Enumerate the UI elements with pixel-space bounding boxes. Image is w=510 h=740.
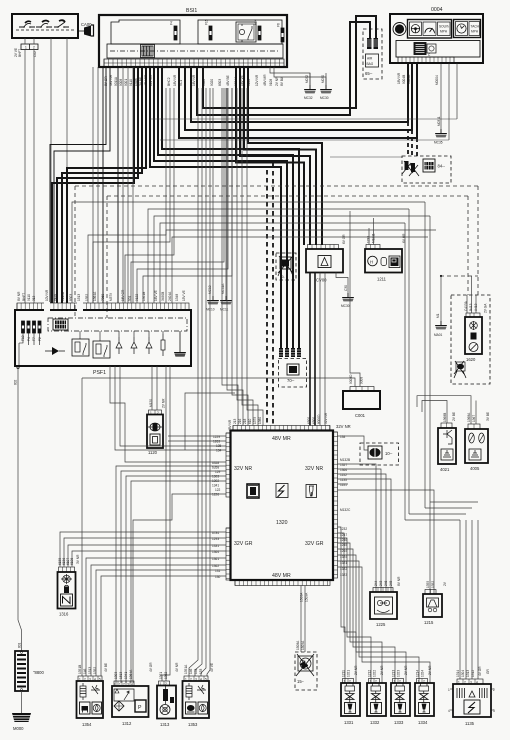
switch S3 bbox=[54, 20, 69, 28]
wire bbox=[72, 551, 226, 567]
svg-text:1368A: 1368A bbox=[467, 412, 471, 422]
wire bbox=[86, 558, 226, 676]
svg-text:M0004: M0004 bbox=[435, 75, 439, 85]
svg-text:1: 1 bbox=[160, 682, 162, 686]
svg-text:4V GR: 4V GR bbox=[149, 662, 153, 672]
svg-text:1351B: 1351B bbox=[78, 665, 82, 674]
svg-text:GR: GR bbox=[486, 669, 490, 674]
svg-text:216: 216 bbox=[238, 418, 242, 424]
wires to 1225 1215 bbox=[338, 464, 435, 594]
svg-text:2V NR: 2V NR bbox=[275, 76, 279, 86]
svg-text:1: 1 bbox=[344, 680, 346, 684]
connector box 84 dashed bbox=[402, 156, 451, 183]
svg-text:2: 2 bbox=[464, 681, 466, 685]
thick harness C3 bbox=[240, 67, 310, 245]
svg-text:1508A: 1508A bbox=[300, 592, 304, 602]
wires 1620 up bbox=[467, 276, 476, 313]
svg-text:16V VE: 16V VE bbox=[154, 290, 158, 301]
svg-text:18V NR: 18V NR bbox=[397, 72, 401, 84]
wire CA00 pins down bbox=[25, 38, 67, 303]
switch S1 bbox=[19, 21, 35, 28]
CV00 outputs down to ECU bbox=[310, 273, 315, 426]
thick harness D3 bbox=[158, 67, 293, 348]
svg-text:1353: 1353 bbox=[188, 722, 198, 727]
inner dashed region bbox=[107, 196, 468, 318]
wire bbox=[120, 366, 226, 446]
PSF1 top pin row bbox=[17, 303, 189, 310]
verticals BSI down to 1320 top bbox=[222, 88, 238, 426]
wire bbox=[64, 538, 226, 567]
svg-text:1215: 1215 bbox=[424, 620, 434, 625]
svg-text:2: 2 bbox=[165, 682, 167, 686]
diode D3 bbox=[146, 337, 152, 354]
fuse F14 bbox=[258, 26, 261, 40]
wires 4005 up bbox=[417, 396, 476, 424]
svg-text:1367: 1367 bbox=[472, 415, 476, 422]
injector 1334 bbox=[415, 679, 434, 717]
left mesh horizontals group1 to 1320 bbox=[168, 435, 226, 437]
svg-text:32V NR: 32V NR bbox=[336, 424, 351, 429]
svg-text:8V BA: 8V BA bbox=[280, 76, 284, 86]
dashed option link bbox=[440, 275, 478, 277]
svg-text:1368B: 1368B bbox=[443, 413, 447, 422]
svg-text:8V NR: 8V NR bbox=[397, 576, 401, 586]
svg-text:1513: 1513 bbox=[77, 294, 81, 301]
svg-text:MA01: MA01 bbox=[434, 333, 443, 337]
svg-text:6358: 6358 bbox=[212, 461, 219, 465]
svg-text:1: 1 bbox=[458, 681, 460, 685]
wire bbox=[338, 538, 372, 683]
PSF1 inner wires bbox=[19, 331, 163, 366]
injector 1333 bbox=[391, 679, 410, 717]
fuse F15 bbox=[209, 26, 212, 40]
svg-text:146: 146 bbox=[189, 668, 193, 674]
svg-text:1229: 1229 bbox=[213, 435, 220, 439]
svg-text:BSI1: BSI1 bbox=[186, 8, 197, 14]
svg-text:2V NR: 2V NR bbox=[428, 665, 432, 675]
svg-text:1362: 1362 bbox=[164, 672, 168, 679]
svg-text:M132B: M132B bbox=[340, 458, 350, 462]
svg-text:2V NR: 2V NR bbox=[380, 665, 384, 675]
svg-text:218: 218 bbox=[243, 418, 247, 424]
svg-text:122: 122 bbox=[215, 488, 221, 492]
svg-text:4V BE: 4V BE bbox=[104, 663, 108, 672]
extra thin wires BSI to PSF1 bbox=[93, 67, 133, 303]
svg-text:3490B: 3490B bbox=[161, 292, 165, 301]
svg-text:6V HR: 6V HR bbox=[402, 233, 406, 243]
svg-text:1152: 1152 bbox=[340, 473, 347, 477]
svg-text:32V NR: 32V NR bbox=[234, 466, 252, 472]
PSF1 chip connector bbox=[53, 319, 68, 330]
svg-text:146: 146 bbox=[83, 668, 87, 674]
wire bbox=[68, 545, 226, 567]
svg-text:4: 4 bbox=[131, 683, 133, 687]
svg-text:2V GA: 2V GA bbox=[484, 303, 488, 313]
svg-text:152: 152 bbox=[194, 668, 198, 674]
sensor 1215 bbox=[423, 590, 442, 618]
fuse PF4 bbox=[38, 321, 41, 333]
svg-text:48V NR: 48V NR bbox=[228, 419, 232, 431]
svg-text:65--: 65-- bbox=[365, 71, 373, 76]
svg-text:B413: B413 bbox=[469, 303, 473, 311]
thick harness E2 bbox=[197, 22, 370, 115]
svg-text:MC30: MC30 bbox=[320, 96, 329, 100]
thick harness D1 BSI to connector 70 bbox=[150, 67, 281, 348]
svg-text:1303: 1303 bbox=[212, 475, 219, 479]
svg-text:2: 2 bbox=[190, 678, 192, 682]
gauge group A box bbox=[408, 20, 452, 39]
svg-text:3: 3 bbox=[195, 678, 197, 682]
wire to MC11 bbox=[225, 88, 227, 296]
blower unit 1354 bbox=[77, 676, 104, 718]
wire bbox=[131, 88, 224, 303]
wire 8022b and 1353 feeds from PSF1 bbox=[81, 378, 83, 676]
svg-text:MC35: MC35 bbox=[434, 141, 443, 145]
svg-text:2: 2 bbox=[375, 680, 377, 684]
fuse PF3 bbox=[33, 321, 36, 333]
fuse box PSF1 bbox=[15, 310, 191, 366]
ground M000 bbox=[12, 713, 32, 722]
svg-text:4005: 4005 bbox=[470, 466, 480, 471]
svg-text:9110: 9110 bbox=[129, 79, 133, 86]
svg-text:1362: 1362 bbox=[212, 564, 219, 568]
BSI1 sub-box right bbox=[198, 20, 282, 44]
chip module bbox=[414, 43, 436, 58]
fuse PF1 bbox=[22, 321, 25, 333]
svg-text:M120: M120 bbox=[149, 399, 153, 407]
1320 icon injector bbox=[306, 485, 317, 498]
wire bbox=[338, 549, 396, 683]
cluster pin row bbox=[398, 57, 454, 64]
svg-text:BHC2: BHC2 bbox=[167, 77, 171, 86]
wire to MC10 bbox=[212, 88, 214, 296]
svg-text:2: 2 bbox=[349, 680, 351, 684]
svg-text:1364A: 1364A bbox=[93, 291, 97, 301]
svg-text:1513: 1513 bbox=[88, 667, 92, 674]
wires 1320 to dashed fan bbox=[301, 586, 305, 653]
svg-text:15V VE: 15V VE bbox=[182, 290, 186, 301]
svg-text:BAG: BAG bbox=[367, 62, 374, 66]
svg-text:1352: 1352 bbox=[85, 294, 89, 301]
svg-text:1212: 1212 bbox=[368, 670, 372, 677]
svg-text:8V NR: 8V NR bbox=[17, 291, 21, 301]
wire bbox=[189, 88, 210, 676]
ground MC32 bbox=[304, 85, 317, 94]
BSI1 lower box bbox=[107, 44, 283, 58]
svg-text:3: 3 bbox=[493, 709, 495, 713]
svg-text:MC11A: MC11A bbox=[221, 283, 225, 294]
svg-text:2: 2 bbox=[33, 46, 35, 50]
icon SOU/h box bbox=[438, 22, 451, 36]
svg-text:4: 4 bbox=[448, 709, 450, 713]
svg-text:1: 1 bbox=[25, 46, 27, 50]
svg-text:MC30: MC30 bbox=[341, 304, 350, 308]
wire 134 to connector 10 bbox=[338, 436, 369, 450]
svg-text:1379: 1379 bbox=[253, 417, 257, 424]
svg-text:1312: 1312 bbox=[122, 721, 132, 726]
svg-text:"8800: "8800 bbox=[33, 670, 44, 675]
svg-text:84--: 84-- bbox=[438, 164, 446, 169]
thick harness D4 bbox=[162, 67, 299, 348]
gauge group B box bbox=[454, 20, 481, 38]
svg-text:1225: 1225 bbox=[376, 622, 386, 627]
svg-text:134: 134 bbox=[216, 449, 222, 453]
svg-text:1303: 1303 bbox=[114, 672, 118, 679]
resistor D4 bbox=[161, 334, 165, 356]
harness B2 bbox=[50, 67, 106, 303]
svg-text:1320: 1320 bbox=[276, 520, 288, 526]
wire bbox=[131, 481, 226, 683]
ignition coil 1135 bbox=[448, 679, 495, 717]
connector C02 2-pin bbox=[21, 44, 38, 50]
svg-text:MC32: MC32 bbox=[304, 96, 313, 100]
fuse F6 bbox=[281, 28, 284, 42]
crossed stubs in 84 box bbox=[402, 161, 419, 176]
svg-text:2V NR: 2V NR bbox=[404, 665, 408, 675]
svg-text:M0311: M0311 bbox=[437, 116, 441, 126]
svg-text:4V GR: 4V GR bbox=[478, 666, 482, 676]
svg-text:3: 3 bbox=[89, 678, 91, 682]
svg-text:1322: 1322 bbox=[373, 670, 377, 677]
dashed option wires to ECU bbox=[266, 170, 268, 426]
wire bbox=[232, 88, 248, 426]
crossed connector 70 option bbox=[276, 253, 296, 280]
svg-text:PSF1: PSF1 bbox=[93, 370, 106, 376]
diode arrow symbol bbox=[52, 347, 59, 355]
wire bbox=[162, 366, 170, 681]
svg-text:9008D: 9008D bbox=[349, 374, 353, 384]
chip connector 84 bbox=[423, 159, 435, 172]
svg-text:1: 1 bbox=[119, 683, 121, 687]
switch S2 bbox=[36, 21, 52, 28]
svg-text:2V NR: 2V NR bbox=[354, 665, 358, 675]
wire bbox=[148, 209, 409, 303]
svg-text:1226: 1226 bbox=[212, 493, 219, 497]
svg-text:C001: C001 bbox=[355, 413, 366, 418]
svg-text:9110: 9110 bbox=[27, 294, 31, 301]
thick harness C1 BSI to CV00 bbox=[248, 67, 322, 245]
ground MC11 bbox=[220, 296, 233, 305]
right verticals to coil bbox=[460, 520, 478, 679]
svg-text:1364A: 1364A bbox=[129, 669, 133, 679]
svg-text:3: 3 bbox=[127, 683, 129, 687]
wire bbox=[242, 88, 258, 426]
svg-text:1324: 1324 bbox=[421, 670, 425, 677]
wire MC32 horiz from BSI bbox=[270, 67, 326, 85]
svg-text:7360: 7360 bbox=[101, 294, 105, 301]
svg-text:B: B bbox=[115, 683, 117, 687]
svg-text:48V MR: 48V MR bbox=[272, 436, 291, 442]
wires 1120 up to PSF1 bbox=[152, 366, 157, 410]
svg-text:8000D: 8000D bbox=[317, 414, 321, 424]
thick harness F3 bbox=[179, 64, 417, 139]
right long verticals bbox=[405, 202, 430, 594]
fuel gauge unit 1211 bbox=[365, 245, 402, 273]
relay R2 bbox=[93, 341, 110, 358]
svg-text:1352: 1352 bbox=[431, 581, 435, 588]
svg-text:1323: 1323 bbox=[397, 670, 401, 677]
svg-text:C02: C02 bbox=[33, 51, 37, 57]
1320 icon connector bbox=[247, 484, 259, 498]
svg-text:1361: 1361 bbox=[212, 557, 219, 561]
group3 wires to 1316 and 1354 bbox=[60, 532, 226, 567]
svg-text:5: 5 bbox=[205, 678, 207, 682]
pin row gaps bbox=[44, 302, 50, 311]
svg-text:32V GR: 32V GR bbox=[305, 541, 324, 547]
svg-text:MC10: MC10 bbox=[206, 308, 215, 312]
svg-text:H: H bbox=[370, 260, 373, 265]
relay K1 bbox=[236, 22, 256, 42]
AIR BAG text box bbox=[366, 54, 379, 67]
airbag dashed box 65 bbox=[363, 29, 382, 79]
thick harness A3 bbox=[62, 67, 142, 303]
svg-text:9020: 9020 bbox=[210, 79, 214, 86]
svg-text:1354: 1354 bbox=[82, 722, 92, 727]
svg-text:M379: M379 bbox=[109, 293, 113, 301]
wire bbox=[320, 273, 325, 426]
connector plug CA00 bbox=[78, 25, 94, 37]
svg-text:6108: 6108 bbox=[70, 558, 74, 565]
ground MC30b bbox=[342, 293, 355, 302]
wire bbox=[154, 216, 430, 303]
svg-text:2V BE: 2V BE bbox=[452, 412, 456, 421]
svg-text:9004B: 9004B bbox=[402, 75, 406, 84]
svg-text:1357: 1357 bbox=[340, 463, 347, 467]
svg-text:1211: 1211 bbox=[342, 670, 346, 677]
fuse F4 bbox=[174, 26, 177, 40]
svg-text:1293: 1293 bbox=[212, 537, 219, 541]
svg-text:1380: 1380 bbox=[258, 417, 262, 424]
svg-text:9115A: 9115A bbox=[61, 291, 65, 301]
wire 4021 up bbox=[422, 401, 447, 424]
wire PSF1 8022 down bbox=[18, 366, 22, 651]
connector C001 bbox=[343, 387, 380, 410]
wire bbox=[116, 466, 226, 683]
wire bbox=[338, 543, 383, 683]
relay unit 1120 bbox=[147, 410, 163, 448]
svg-text:1211: 1211 bbox=[377, 277, 387, 282]
icon clock bbox=[456, 22, 468, 36]
svg-text:1314: 1314 bbox=[456, 670, 460, 677]
svg-text:1348: 1348 bbox=[175, 294, 179, 301]
svg-text:9008: 9008 bbox=[119, 79, 123, 86]
svg-text:1364: 1364 bbox=[212, 550, 219, 554]
svg-text:9011A: 9011A bbox=[114, 76, 118, 86]
svg-text:48V MR: 48V MR bbox=[272, 573, 291, 579]
injector 1332 bbox=[367, 679, 386, 717]
svg-text:3V BE: 3V BE bbox=[486, 412, 490, 421]
BSI1 internal connector bbox=[141, 45, 155, 58]
svg-text:1135: 1135 bbox=[340, 478, 347, 482]
svg-text:1304: 1304 bbox=[461, 670, 465, 677]
siren CV00 bbox=[306, 245, 343, 273]
BSI1 unit box bbox=[99, 15, 287, 67]
svg-text:1: 1 bbox=[150, 411, 152, 415]
svg-text:1213: 1213 bbox=[392, 670, 396, 677]
svg-text:1313: 1313 bbox=[160, 722, 170, 727]
ground MC35 bbox=[435, 129, 448, 138]
svg-text:F2: F2 bbox=[38, 337, 42, 341]
thick harness F2 bbox=[185, 64, 412, 131]
switch unit CA00 box bbox=[12, 14, 78, 38]
thick harness C4 bbox=[236, 67, 304, 245]
1320 icon lightning bbox=[276, 484, 288, 498]
wire bbox=[165, 366, 167, 681]
cluster lower box bbox=[396, 41, 480, 58]
wires 1211 up bbox=[369, 218, 374, 245]
1320 top pin row bbox=[233, 426, 330, 431]
svg-text:4: 4 bbox=[94, 678, 96, 682]
svg-text:1316: 1316 bbox=[59, 612, 69, 617]
BSI1 bottom pin row bbox=[104, 59, 284, 67]
icon wheel bbox=[410, 22, 422, 36]
svg-text:1: 1 bbox=[370, 680, 372, 684]
svg-text:153: 153 bbox=[199, 668, 203, 674]
svg-text:2404A: 2404A bbox=[168, 291, 172, 301]
svg-text:2: 2 bbox=[84, 678, 86, 682]
svg-text:32V NR: 32V NR bbox=[305, 466, 323, 472]
svg-text:4021: 4021 bbox=[440, 467, 450, 472]
svg-text:M032: M032 bbox=[305, 75, 309, 83]
svg-text:610: 610 bbox=[248, 418, 252, 424]
svg-text:70-: 70- bbox=[280, 275, 285, 279]
svg-text:1508A: 1508A bbox=[296, 640, 300, 650]
battery strip 8800 bbox=[15, 651, 28, 691]
BSI1 sub-box left bbox=[111, 20, 180, 44]
svg-text:M132C: M132C bbox=[340, 508, 351, 512]
1320 bottom pin row bbox=[235, 580, 330, 586]
svg-text:1: 1 bbox=[418, 680, 420, 684]
svg-text:1120: 1120 bbox=[148, 450, 158, 455]
wire bbox=[160, 223, 405, 303]
long fan from right side bbox=[72, 202, 425, 303]
svg-text:313: 313 bbox=[32, 295, 36, 301]
wire bbox=[247, 88, 263, 426]
svg-text:134: 134 bbox=[340, 435, 346, 439]
svg-text:M000: M000 bbox=[13, 726, 24, 731]
wires C001 up bbox=[82, 211, 360, 387]
svg-text:6V GR: 6V GR bbox=[342, 234, 346, 244]
wire bbox=[338, 567, 431, 683]
1320 right pins to injectors bbox=[338, 527, 346, 683]
svg-text:1513: 1513 bbox=[119, 672, 123, 679]
svg-text:2: 2 bbox=[157, 411, 159, 415]
wire bbox=[185, 393, 235, 450]
svg-text:TACH: TACH bbox=[471, 25, 480, 29]
instrument cluster 0004 box bbox=[390, 14, 483, 63]
injector 1331 bbox=[341, 679, 360, 717]
wire bbox=[133, 494, 226, 683]
1320 right pin column bbox=[333, 432, 338, 578]
harness B4 bbox=[117, 67, 119, 303]
svg-text:F4: F4 bbox=[27, 337, 31, 341]
svg-text:48V MR: 48V MR bbox=[263, 74, 267, 86]
svg-text:4: 4 bbox=[476, 681, 478, 685]
svg-text:9108: 9108 bbox=[269, 79, 273, 86]
wire bbox=[101, 576, 226, 676]
svg-text:P: P bbox=[138, 705, 142, 711]
wire bbox=[338, 533, 357, 683]
svg-text:1: 1 bbox=[394, 680, 396, 684]
svg-text:10V NR: 10V NR bbox=[45, 289, 49, 301]
svg-text:C30: C30 bbox=[344, 285, 348, 291]
wire bbox=[338, 561, 420, 683]
svg-text:32V GR: 32V GR bbox=[234, 541, 253, 547]
svg-text:1135: 1135 bbox=[465, 721, 475, 726]
svg-text:1214: 1214 bbox=[416, 670, 420, 677]
svg-text:9150: 9150 bbox=[53, 294, 57, 301]
svg-text:8303: 8303 bbox=[218, 79, 222, 86]
